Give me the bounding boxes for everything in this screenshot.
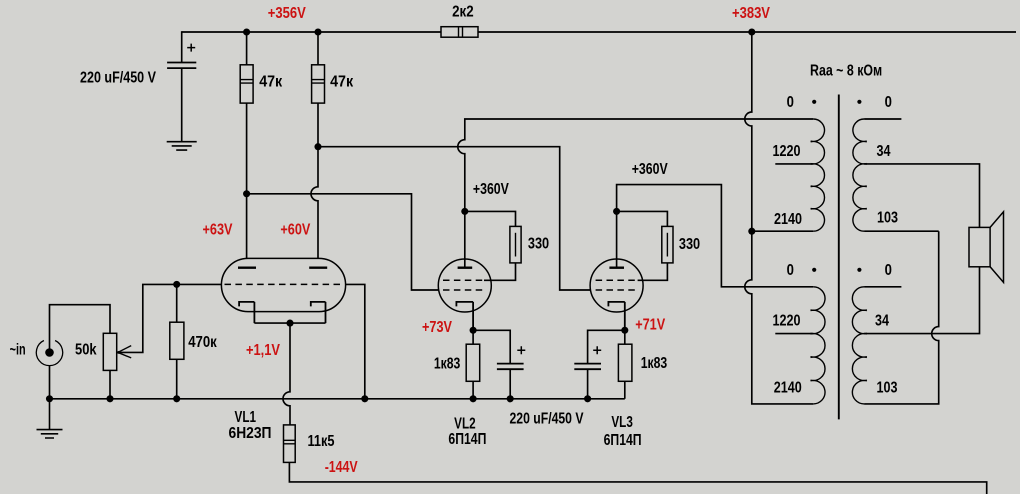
wire VL2 cathode to R6	[472, 330, 474, 344]
wire ground rail	[50, 398, 625, 400]
resistor R4 470k body	[170, 322, 184, 359]
wire secondary upper 0 lead	[864, 118, 901, 120]
wire +360V to R5 top	[465, 211, 516, 226]
wire R7 to -144V supply	[289, 462, 986, 494]
VL2 anode bar	[458, 267, 473, 269]
VL1 right anode bar	[309, 267, 327, 269]
resistor R2 47k body	[312, 65, 325, 103]
VL3 cathode	[608, 302, 624, 330]
svg-text:34: 34	[875, 313, 889, 330]
svg-text:+360V: +360V	[473, 181, 510, 198]
svg-text:1к83: 1к83	[434, 356, 461, 373]
svg-text:6П14П: 6П14П	[604, 432, 642, 449]
wire VL1 cathode bus	[254, 322, 325, 324]
wire primary upper 2140 lead	[752, 230, 814, 232]
wire R1 bottom to VL1 left plate	[246, 103, 248, 268]
R2 power marks	[312, 80, 325, 84]
wire VL3 anode lead	[616, 211, 618, 267]
svg-text:6П14П: 6П14П	[448, 431, 486, 448]
speaker BA1 body	[969, 227, 990, 266]
node 470k top junction	[173, 281, 180, 288]
resistor R7 11k5 body	[284, 425, 296, 463]
svg-text:2140: 2140	[774, 211, 802, 228]
svg-text:103: 103	[877, 210, 898, 227]
node VL3 +360V junction	[613, 208, 620, 215]
svg-text:2к2: 2к2	[452, 4, 474, 21]
svg-text:220 uF/450 V: 220 uF/450 V	[80, 70, 157, 87]
wire R6 bottom to rail	[472, 381, 474, 399]
wire C1 top lead	[181, 31, 183, 62]
wire R4 bottom lead	[176, 359, 178, 399]
wire RP1 bottom to rail	[109, 370, 111, 398]
node VL1 grid2 ground junction	[361, 395, 368, 402]
svg-text:0: 0	[885, 262, 892, 279]
node VL3 cathode junction	[621, 327, 628, 334]
wire +383V feed (hops over both anode wires)	[745, 32, 814, 404]
wire VL2 anode lead	[464, 211, 466, 267]
transformer T1 primary upper winding	[811, 119, 825, 231]
node B (VL1 right plate / VL3 grid) junction	[314, 143, 321, 150]
node R4 ground junction	[173, 395, 180, 402]
wire VL3 cathode to R9	[624, 330, 626, 344]
svg-text:0: 0	[787, 262, 794, 279]
svg-text:47к: 47к	[330, 74, 353, 91]
svg-text:0: 0	[885, 94, 892, 111]
svg-text:+73V: +73V	[422, 319, 453, 336]
wire VL3 screen to R8 bottom	[638, 263, 668, 280]
VL3 screen grid dashed	[596, 279, 638, 281]
svg-text:+360V: +360V	[632, 161, 669, 178]
connector X1 input jack shell	[36, 341, 62, 366]
node VL2 cathode junction	[470, 327, 477, 334]
svg-text:220 uF/450 V: 220 uF/450 V	[510, 410, 585, 427]
svg-text:+60V: +60V	[280, 222, 311, 239]
speaker BA1 cone	[990, 212, 1003, 283]
svg-text:+383V: +383V	[732, 5, 771, 22]
R3 power marks	[459, 27, 463, 38]
svg-text:1к83: 1к83	[641, 355, 668, 372]
node VL1 cathode junction	[286, 320, 293, 327]
VL1 right cathode	[311, 302, 326, 323]
VL1 left cathode	[239, 302, 254, 323]
svg-text:47к: 47к	[259, 74, 282, 91]
wire VL2 anode to output transformer (hop over node-B wire)	[458, 119, 813, 211]
wire +356V top rail	[182, 31, 1016, 33]
wire C1 to ground	[181, 68, 183, 141]
wire R2 bottom to VL1 right plate (hop over node-A wire)	[311, 103, 318, 268]
transformer T1 secondary lower winding	[852, 287, 867, 404]
wire secondary upper 34 tap to speaker	[864, 164, 979, 228]
wire secondary lower 0 lead	[864, 286, 901, 288]
svg-text:6Н23П: 6Н23П	[229, 425, 272, 442]
VL2 control grid dashed	[443, 289, 484, 291]
capacitor C2 220uF plates	[497, 364, 524, 370]
svg-text:470к: 470к	[188, 334, 217, 351]
wire primary upper 1220 tap	[775, 163, 813, 165]
resistor R8 330 body	[662, 226, 673, 263]
T1 secondary lower polarity dot	[857, 268, 861, 272]
wire VL1 grid1 lead to pot wiper	[118, 284, 222, 352]
svg-text:1220: 1220	[773, 143, 801, 160]
wire VL3 anode to output transformer	[617, 185, 814, 287]
tube VL3 envelope	[590, 259, 643, 312]
node C2 ground junction	[507, 395, 514, 402]
potentiometer RP1 50k body	[103, 333, 116, 370]
svg-text:103: 103	[877, 379, 898, 396]
wire R1 top lead	[246, 32, 248, 65]
wire VL1 grid2 to ground rail	[346, 284, 365, 398]
svg-text:Raa ~ 8 кОм: Raa ~ 8 кОм	[810, 62, 882, 79]
svg-text:+356V: +356V	[268, 5, 307, 22]
wire node B to VL3 grid	[318, 147, 596, 290]
R5 power mark	[515, 233, 517, 257]
R8 power mark	[666, 233, 668, 257]
wire secondary upper 103 to lower 103 (hop over lower 34 tap)	[864, 231, 939, 404]
svg-text:VL3: VL3	[611, 414, 633, 431]
svg-text:34: 34	[877, 143, 891, 160]
resistor R5 330 body	[510, 226, 521, 263]
wire VL3 cathode to C3	[588, 330, 625, 363]
wire X1 pin to pot top	[50, 305, 111, 353]
node primary upper 2140 junction	[748, 228, 755, 235]
VL2 screen grid dashed	[443, 279, 484, 281]
svg-text:11к5: 11к5	[308, 433, 335, 450]
VL3 control grid dashed	[596, 289, 638, 291]
svg-text:330: 330	[528, 236, 549, 253]
wire VL2 screen to R5 bottom	[484, 263, 516, 280]
tube VL2 envelope	[438, 259, 491, 312]
R1 power marks	[240, 80, 253, 84]
svg-text:+63V: +63V	[203, 222, 234, 239]
T1 primary upper polarity dot	[812, 100, 816, 104]
svg-text:-144V: -144V	[325, 459, 359, 476]
node C3 ground junction	[584, 395, 591, 402]
transformer T1 core	[838, 95, 840, 420]
wire C2 bottom to rail	[509, 369, 511, 399]
node +356V junction at R1	[243, 28, 250, 35]
resistor R3 2k2 body	[441, 27, 478, 38]
wire C3 bottom to rail	[587, 369, 589, 399]
C1 plus polarity mark	[187, 44, 195, 52]
T1 secondary upper polarity dot	[857, 100, 861, 104]
T1 primary lower polarity dot	[812, 268, 816, 272]
node A (VL1 left plate / VL2 grid) junction	[243, 190, 250, 197]
svg-text:1220: 1220	[773, 313, 801, 330]
VL3 anode bar	[609, 267, 624, 269]
node pot ground junction	[106, 395, 113, 402]
wire R4 top lead	[176, 284, 178, 322]
capacitor C3 220uF plates	[574, 364, 601, 370]
svg-text:~in: ~in	[10, 342, 26, 359]
VL2 cathode	[456, 302, 473, 330]
svg-text:50k: 50k	[75, 342, 97, 359]
C2 plus polarity mark	[517, 346, 525, 354]
node +356V junction at R2	[314, 28, 321, 35]
resistor R9 1k83 body	[618, 344, 632, 381]
wire R2 top lead	[317, 32, 319, 65]
C3 plus polarity mark	[593, 346, 601, 354]
svg-text:+1,1V: +1,1V	[246, 342, 281, 359]
ground (input)	[37, 399, 63, 438]
resistor R1 47k body	[240, 65, 253, 103]
wire primary lower 1220 tap	[775, 333, 813, 335]
VL1 grid dashed line	[225, 283, 341, 285]
RP1 wiper tip dot	[117, 351, 120, 354]
svg-text:0: 0	[787, 94, 794, 111]
wire +360V to R8 top	[617, 211, 668, 226]
VL1 left anode bar	[238, 267, 256, 269]
connector X1 center pin	[45, 348, 54, 357]
transformer T1 primary lower winding	[810, 287, 825, 404]
wire VL1 cathode to R7 (hop over ground rail)	[283, 323, 290, 425]
transformer T1 secondary upper winding	[853, 119, 867, 231]
node R6 ground junction	[470, 395, 477, 402]
RP1 wiper arrow	[118, 346, 131, 358]
ground (C1)	[167, 142, 197, 150]
wire node A to VL2 grid	[247, 194, 444, 290]
wire VL2 cathode to C2	[473, 330, 510, 363]
svg-text:+71V: +71V	[635, 317, 666, 334]
tube VL1 envelope	[221, 258, 345, 311]
wire secondary lower 34 tap to speaker	[864, 267, 979, 334]
svg-text:VL1: VL1	[235, 409, 257, 426]
node +383V junction	[748, 28, 755, 35]
wire R9 bottom to rail	[624, 381, 626, 399]
capacitor C1 220uF/450V plates	[167, 63, 196, 69]
wire X1 shell to ground rail	[49, 366, 51, 399]
node VL2 +360V junction	[461, 208, 468, 215]
resistor R6 1k83 body	[466, 344, 480, 381]
node input ground junction	[46, 395, 53, 402]
svg-text:330: 330	[679, 236, 700, 253]
svg-text:2140: 2140	[774, 379, 802, 396]
R7 power marks	[284, 440, 296, 444]
